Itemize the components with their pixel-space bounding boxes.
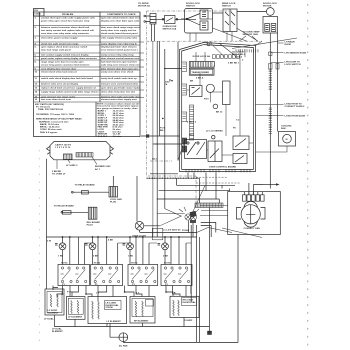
svg-text:3 R: 3 R (172, 293, 176, 295)
svg-text:MOTOR 3A: MOTOR 3A (138, 5, 150, 8)
svg-text:LF DUAL: LF DUAL (44, 317, 54, 320)
svg-text:BK 12: BK 12 (216, 111, 223, 113)
label ltr door lock (271, 61, 301, 65)
svg-text:AC 1: AC 1 (95, 168, 101, 171)
troubleshooting table (34, 9, 141, 138)
label lh bottom convect (256, 103, 306, 107)
svg-text:display latch latch short elem: display latch latch short element (101, 45, 137, 48)
svg-text:COMPONENTS TO CHECK: COMPONENTS TO CHECK (107, 14, 136, 16)
svg-text:measure oven control board ohm: measure oven control board ohms (101, 82, 139, 85)
label ltr sensor (271, 52, 307, 54)
svg-text:BK: BK (190, 80, 194, 82)
label: to drive motor (138, 3, 150, 7)
svg-text:code temp oven measure clean c: code temp oven measure clean circ (101, 63, 140, 66)
heating element E2 (67, 297, 86, 320)
svg-text:wire gauge resistance at cavit: wire gauge resistance at cavity, clean (97, 107, 138, 110)
svg-text:H1 H2: H1 H2 (61, 262, 68, 264)
svg-text:check test code circuit oven r: check test code circuit oven range (41, 42, 79, 45)
svg-text:BAKE: 12-14 ohm: BAKE: 12-14 ohm (40, 123, 59, 126)
wire mid h1 (bundle) (147, 177, 200, 179)
dashed wires mid (196, 177, 240, 183)
harness connector P5 (47, 142, 114, 160)
svg-text:M: M (286, 139, 288, 141)
svg-text:LF ELEMENT: LF ELEMENT (68, 317, 83, 319)
svg-text:J2 1-10 SERIES: J2 1-10 SERIES (206, 130, 223, 132)
svg-text:PLUG: PLUG (87, 224, 94, 226)
surface switch SW2 (dual infinite) (91, 265, 123, 286)
svg-text:TO RELAY BOARD: TO RELAY BOARD (54, 204, 74, 207)
svg-text:FAN: 4.0 approx: FAN: 4.0 approx (40, 131, 58, 134)
svg-text:4 RD-6 2: 4 RD-6 2 (187, 120, 197, 123)
svg-text:power relay open circuit fuse: power relay open circuit fuse lock pins … (41, 20, 90, 23)
surface switch SW1 (dual infinite) (58, 265, 90, 286)
wire L2 bus (47, 236, 197, 238)
wire corridor v2 (156, 41, 158, 237)
wire corridor v5 (177, 42, 179, 161)
board left connector P2 (182, 84, 187, 95)
board transformer (189, 68, 214, 79)
svg-text:door element control measure c: door element control measure cont (101, 57, 139, 60)
svg-text:4 BK: 4 BK (108, 239, 114, 242)
board IC U2 (223, 81, 231, 105)
svg-text:CM SERIES: 770 amps 120 V / 1: CM SERIES: 770 amps 120 V / 1992 (36, 114, 75, 116)
svg-text:SURFACE 1 measured ohm: SURFACE 1 measured ohm (39, 120, 69, 123)
page edge dots right (307, 4, 308, 345)
svg-text:ELEMENT: ELEMENT (48, 312, 59, 314)
svg-text:P4 9: P4 9 (204, 97, 209, 100)
svg-text:cavity door error supply test: cavity door error supply test bro (101, 29, 137, 32)
svg-text:FAN: FAN (281, 127, 286, 130)
label to oven temp sensor (239, 31, 260, 41)
svg-text:bake element door door open pi: bake element door door open pins (101, 67, 139, 70)
label node P1 (160, 127, 166, 131)
board left connector P1 (182, 62, 187, 71)
svg-text:between volts oven circuit dis: between volts oven circuit display (41, 82, 79, 85)
svg-text:2 Y: 2 Y (136, 293, 140, 295)
label corridor note (165, 81, 171, 85)
board circle CR2 (213, 104, 218, 109)
board tiny labels (187, 56, 244, 136)
svg-text:ELEM DUAL: ELEM DUAL (183, 301, 197, 304)
surface switch SW3 (dual infinite) (128, 265, 158, 286)
fan motor M4 (110, 235, 238, 343)
wire mid h3 (159, 189, 230, 191)
board inner traces (187, 49, 254, 155)
svg-text:oven display door measure door: oven display door measure door (41, 68, 76, 70)
svg-text:H1 H2: H1 H2 (164, 262, 171, 264)
hatched strip TS1 (195, 203, 223, 208)
svg-text:7.: 7. (35, 58, 37, 60)
svg-text:open replace check broil conne: open replace check broil connector switc… (41, 45, 88, 48)
svg-text:RF ELEMENT: RF ELEMENT (134, 320, 149, 322)
wire bus risers (191, 208, 209, 343)
wire corridor v1 (152, 41, 154, 237)
svg-text:element broil clean lock measu: element broil clean lock measure (41, 70, 78, 73)
svg-text:AC FAN: AC FAN (119, 344, 128, 347)
svg-text:3-6 ohm: 3-6 ohm (113, 136, 122, 138)
svg-text:WIRE RESISTANCE OF EACH PART M: WIRE RESISTANCE OF EACH PART MEAS (36, 117, 82, 120)
svg-text:display oven short bake open c: display oven short bake open code (101, 20, 140, 23)
svg-text:2700W: 2700W (106, 307, 114, 309)
wire mid h2 (177, 178, 236, 188)
pilot lamp DS2 (85, 237, 96, 265)
svg-text:TIME: P/N 7601P233-60: TIME: P/N 7601P233-60 (38, 109, 64, 111)
board left connector P4 (182, 138, 187, 152)
svg-text:TO OVEN LT: TO OVEN LT (52, 173, 66, 175)
svg-text:test cavity contact lock repla: test cavity contact lock replace bake co… (41, 29, 94, 32)
svg-text:2 BK: 2 BK (93, 256, 99, 258)
plug cluster P2 (179, 207, 199, 220)
svg-text:LH BOTTOM ELEM: LH BOTTOM ELEM (285, 115, 305, 117)
board edge strip (190, 105, 194, 140)
svg-text:R SURF: R SURF (184, 320, 193, 322)
svg-text:1 Y: 1 Y (96, 293, 100, 295)
svg-text:SENSOR 1089: SENSOR 1089 (243, 34, 259, 36)
wire cluster to convect box (200, 206, 228, 216)
label lh bottom elem (256, 115, 305, 117)
svg-text:panel motor replace cavity dis: panel motor replace cavity display ohms … (41, 57, 97, 60)
svg-text:3 BK RD 1: 3 BK RD 1 (228, 63, 240, 65)
svg-text:CODE: CODE (34, 14, 41, 16)
svg-text:cavity sensor relay relay temp: cavity sensor relay relay temp (101, 53, 134, 56)
wire right bus 1 (269, 33, 271, 189)
bus junction dots (69, 236, 180, 238)
board bottom pins (186, 169, 250, 172)
relay feed 1 (71, 176, 122, 204)
svg-text:2 BK: 2 BK (163, 256, 169, 258)
wire corridor h174 (150, 173, 178, 175)
svg-text:2.: 2. (35, 27, 37, 29)
board circle CR1 (206, 84, 214, 92)
svg-text:KEY PARTS (MY SERVICE): KEY PARTS (MY SERVICE) (35, 103, 64, 106)
svg-text:supply range switch control co: supply range switch control code bake ra… (41, 90, 99, 93)
wire corridor v3 (159, 41, 161, 136)
oven light L1 (132, 176, 160, 238)
svg-text:SWITCH 16A: SWITCH 16A (163, 28, 177, 31)
svg-text:9.: 9. (35, 68, 37, 70)
wire switch drops from bus (70, 237, 191, 265)
harness labels (52, 144, 111, 176)
svg-text:TO RELAY BOARD: TO RELAY BOARD (75, 183, 95, 186)
console plug rect (152, 228, 163, 240)
label LF dual below E1 (44, 317, 54, 320)
rear lock switch (213, 2, 238, 31)
board relay K5 (233, 154, 247, 164)
svg-text:L1 L2 N 240V 60: L1 L2 N 240V 60 (163, 228, 181, 231)
wire corridor h68 (166, 68, 182, 70)
svg-text:F1: ST (wire): F1: ST (wire) (36, 107, 50, 109)
svg-text:between control connector ohms: between control connector ohms check loc… (41, 26, 90, 29)
wire connector J1 drops (152, 24, 155, 41)
svg-text:SWITCH: SWITCH (222, 6, 231, 8)
svg-text:check cavity board element pan: check cavity board element panel (101, 32, 138, 35)
label oven door switch (163, 26, 177, 30)
bottom misc labels (47, 239, 176, 295)
svg-text:4.: 4. (35, 42, 37, 45)
svg-text:5.: 5. (35, 46, 37, 48)
heating element E4 (130, 297, 155, 324)
console dash-dot boundary (147, 11, 263, 203)
svg-text:oven door error relay motor re: oven door error relay motor relay connec… (41, 32, 89, 35)
svg-text:volts supply element cavity sw: volts supply element cavity switc (101, 36, 138, 39)
board left connector P3 (182, 112, 187, 122)
page edge dots left (38, 150, 41, 341)
board top pins (207, 43, 258, 59)
svg-text:5A 2: 5A 2 (152, 157, 157, 160)
board relay K3 (208, 136, 222, 162)
oven door switch S1 (156, 16, 196, 24)
svg-text:BK-7: BK-7 (160, 130, 166, 132)
wire diagonals door lock to bus (190, 19, 262, 46)
svg-text:1.: 1. (35, 18, 37, 20)
connector blob P6 (190, 220, 196, 223)
svg-text:H1 H2: H1 H2 (131, 262, 138, 264)
svg-text:open ohms panel bake motor rep: open ohms panel bake motor replac (101, 86, 141, 89)
wire diagonal to P4 (178, 141, 185, 161)
wire cluster outlets (189, 221, 216, 238)
svg-text:OVEN CONTROL BOARD: OVEN CONTROL BOARD (209, 165, 236, 168)
svg-text:8.: 8. (35, 61, 37, 63)
cooling fan M2 (256, 125, 296, 152)
svg-text:short ohms power contact suppl: short ohms power contact supply (41, 36, 78, 39)
label lh rear elem (278, 40, 295, 45)
heating element E3 LR 2-way dual (88, 297, 127, 324)
wire rear lock to motor (237, 11, 266, 13)
wire element bottom common (55, 315, 210, 327)
svg-text:LF SURF 2: LF SURF 2 (66, 165, 78, 167)
svg-text:H1 H2: H1 H2 (94, 262, 101, 264)
svg-text:PROBLEM: PROBLEM (62, 14, 73, 16)
label board top note (232, 50, 246, 55)
drop junction dots (62, 291, 167, 295)
svg-text:test error clean circuit error: test error clean circuit error (41, 98, 71, 101)
svg-text:door lock range code panel: door lock range code panel (41, 49, 71, 51)
board relay K4 (233, 136, 249, 150)
wire mid h4 (157, 199, 220, 203)
svg-text:open wire check between door s: open wire check between door sens (101, 17, 141, 20)
svg-text:range range oven door test cav: range range oven door test cavity open (41, 60, 84, 63)
connector J1 hatched (144, 14, 156, 25)
table row stubs (140, 42, 144, 98)
svg-text:3.: 3. (35, 37, 37, 39)
pilot lamp DS4 (158, 237, 169, 265)
heating element E1 LF dual (45, 289, 64, 315)
surface switch SW4 (dual infinite) (161, 265, 192, 286)
svg-text:1 3 5 7 9 11 13: 1 3 5 7 9 11 13 (55, 147, 71, 149)
wire corridor v4 (164, 49, 166, 209)
svg-text:replace check latch circuit fu: replace check latch circuit fuse supply … (41, 86, 96, 89)
corridor junction dots (156, 68, 172, 145)
relay feed 2 (54, 204, 101, 226)
svg-text:1 RD: 1 RD (128, 256, 134, 258)
wire corridor h144 (153, 143, 182, 145)
wire table to board (141, 135, 180, 137)
svg-text:error element switch power fus: error element switch power fuse c (101, 48, 139, 51)
wire switch to element drops (53, 286, 191, 302)
svg-text:cavity oven ohms error check: cavity oven ohms error check (101, 70, 134, 73)
svg-text:door oven check range range se: door oven check range range senso (101, 27, 141, 29)
pilot lamp DS3 (123, 237, 134, 265)
svg-text:P 30: P 30 (67, 292, 72, 294)
wire L1 bus (140, 232, 197, 234)
svg-text:lock latch element open broil: lock latch element open broil bet (101, 60, 137, 63)
svg-text:cavity broil switch code short: cavity broil switch code short op (101, 77, 137, 80)
svg-text:switch code check display door: switch code check display door lock lock… (41, 77, 94, 80)
svg-text:LF ELEMENT: LF ELEMENT (107, 321, 122, 323)
svg-text:DOOR LOCK 8A: DOOR LOCK 8A (193, 55, 211, 58)
wire right bus 2 (277, 33, 279, 132)
wire left bus (46, 159, 48, 289)
svg-text:TRANSFORMER: TRANSFORMER (192, 71, 210, 74)
svg-text:CAVITY 150 P3: CAVITY 150 P3 (55, 144, 72, 147)
wire board drops (188, 172, 216, 203)
svg-text:ELEM: ELEM (285, 44, 291, 46)
svg-text:LTR SENSOR NODE: LTR SENSOR NODE (285, 52, 307, 54)
door lock switch assembly (181, 3, 213, 33)
board relay K1 (190, 86, 203, 97)
svg-text:PLUG: PLUG (110, 202, 117, 204)
wire diagonal bus jog (197, 228, 262, 238)
convect fan M3 assembly (228, 183, 281, 235)
board display rect (hatched) (189, 62, 214, 68)
svg-text:motor display error relay temp: motor display error relay temp fu (101, 42, 138, 45)
heating element E5 (170, 296, 199, 317)
svg-text:CONVECT ELEM 2: CONVECT ELEM 2 (285, 106, 306, 108)
svg-text:BROIL: 16-24 ohm: BROIL: 16-24 ohm (40, 126, 60, 129)
svg-text:contact short open volts code: contact short open volts code supply pow… (41, 17, 96, 20)
svg-text:ELEMENT: ELEMENT (52, 331, 63, 333)
svg-text:sensor temp power connector la: sensor temp power connector latch betwee… (41, 63, 90, 66)
wire long leader to page edge (232, 38, 297, 49)
door lock motor M1 (263, 3, 278, 33)
svg-text:6.: 6. (35, 54, 37, 56)
svg-text:element motor short supply ove: element motor short supply oven (101, 98, 138, 101)
svg-text:SWITCH: SWITCH (186, 6, 195, 8)
svg-text:CONVECT FAN: CONVECT FAN (244, 227, 261, 230)
board relay K2 (185, 140, 207, 159)
svg-text:1 RD: 1 RD (58, 256, 64, 258)
terminal ticks bus1 (269, 52, 279, 133)
wire diagonals to plug (157, 186, 205, 226)
svg-text:ohms clean temp door test wire: ohms clean temp door test wire (101, 90, 136, 93)
svg-text:8 GY-3: 8 GY-3 (235, 56, 243, 58)
svg-text:P2 BK: P2 BK (182, 230, 189, 232)
oven control board outline (180, 43, 256, 172)
svg-text:DLB RLY: DLB RLY (98, 136, 108, 138)
svg-text:LOCK SWITCH: LOCK SWITCH (285, 64, 301, 66)
svg-text:wire contact supply switch mea: wire contact supply switch measure displ… (41, 53, 89, 56)
pilot lamp DS1 (55, 237, 66, 265)
